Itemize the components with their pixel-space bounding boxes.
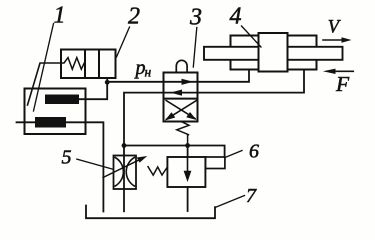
node B above valve 6	[185, 143, 190, 148]
valve U3 crossed arrows (bottom position)	[166, 101, 196, 120]
svg-text:F: F	[335, 72, 350, 96]
svg-text:6: 6	[249, 141, 259, 163]
svg-text:V: V	[328, 18, 342, 38]
svg-text:3: 3	[189, 5, 202, 31]
wire: suction stub left of pump	[17, 121, 36, 123]
pump unit U1 box	[25, 89, 86, 135]
arrow F	[333, 70, 353, 72]
svg-text:4: 4	[230, 4, 242, 30]
valve 2 box	[61, 50, 116, 79]
svg-text:5: 5	[62, 147, 72, 169]
valve 6 pilot box	[205, 157, 225, 169]
throttle 5 box	[114, 156, 137, 190]
throttle 5 adjust arrow	[103, 159, 142, 178]
wire: valve 6 inlet from node B	[187, 146, 189, 158]
arrow V	[323, 39, 344, 41]
valve U3 arrow left (top position)	[170, 90, 182, 96]
svg-text:2: 2	[128, 4, 140, 30]
wire: valve 2 drain to node A	[106, 78, 108, 82]
leader line 3	[193, 28, 197, 68]
node A junction dot	[105, 80, 110, 85]
wire: control line across to pilot	[124, 146, 225, 158]
valve 2 spring	[62, 58, 85, 70]
svg-text:н: н	[145, 65, 152, 80]
wire: line B valve to cylinder right port	[124, 70, 304, 146]
pump element upper (filled)	[45, 95, 79, 105]
pump element lower (filled)	[35, 117, 66, 128]
leader line 5	[77, 159, 113, 169]
wire: throttle branch down to tank	[123, 146, 125, 212]
valve U3 arrow right (top position)	[182, 79, 194, 85]
cylinder C4 piston	[259, 33, 288, 72]
leader line 7	[215, 196, 245, 208]
throttle 5 venturi arcs	[115, 158, 134, 187]
wire: valve 6 drain to tank	[187, 187, 189, 211]
wire: pressure line A to cylinder left port	[107, 70, 249, 82]
cylinder C4 rod	[204, 47, 343, 60]
valve 6 flow arrow	[187, 159, 189, 173]
valve 6 spring	[148, 167, 167, 176]
directional valve U3 box	[164, 73, 198, 122]
cylinder C4 body	[231, 36, 317, 70]
svg-text:7: 7	[246, 185, 257, 207]
leader line 1	[34, 24, 54, 112]
wire: pump lower to tank	[66, 122, 103, 211]
svg-text:1: 1	[54, 3, 66, 29]
valve U3 return spring	[177, 122, 189, 135]
valve U3 push-button dome	[176, 60, 187, 71]
leader line 4	[242, 26, 262, 47]
valve U3 divider	[164, 98, 198, 100]
wire: valve U3 spring end to node B	[187, 135, 189, 146]
node at throttle top	[122, 143, 127, 148]
leader line 6	[225, 151, 242, 158]
wire: valve 2 inlet from pump unit	[28, 63, 62, 105]
valve 2 divider a	[84, 50, 86, 79]
pressure valve 6 box	[167, 157, 205, 187]
wire: pump outlet to node A	[79, 82, 107, 99]
leader line 2	[117, 27, 130, 57]
tank 7	[86, 206, 215, 219]
valve 2 divider b	[98, 50, 100, 79]
